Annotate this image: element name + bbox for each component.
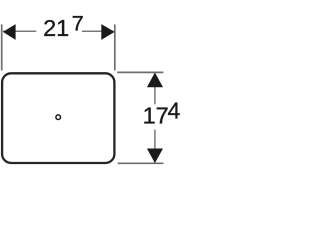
svg-text:7: 7 xyxy=(72,12,84,36)
drain hole (small circle at center) xyxy=(56,115,61,120)
height dimension line, lower segment xyxy=(154,130,156,162)
svg-text:17: 17 xyxy=(143,102,169,128)
width dimension line, left segment xyxy=(3,30,36,32)
arrowhead down xyxy=(147,149,163,164)
extension line bottom (horizontal, height dim) xyxy=(118,162,164,164)
arrowhead up xyxy=(147,73,163,88)
svg-text:21: 21 xyxy=(43,15,69,41)
height dimension line, upper segment xyxy=(154,74,156,105)
washbasin outline (rounded rectangle, top view) xyxy=(2,73,114,163)
extension line top (horizontal, height dim) xyxy=(117,71,163,73)
arrowhead right xyxy=(101,24,114,40)
arrowhead left xyxy=(3,24,16,40)
svg-text:4: 4 xyxy=(168,98,181,124)
extension line right (vertical, width dim) xyxy=(114,24,116,70)
extension line left (vertical, width dim) xyxy=(1,24,3,70)
width dimension line, right segment xyxy=(82,30,114,32)
